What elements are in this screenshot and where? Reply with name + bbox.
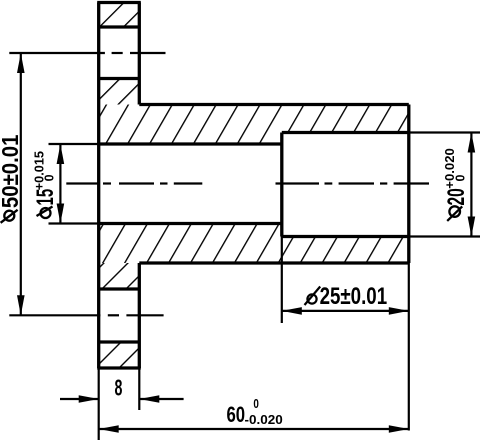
dim phi20 arrow down [468,217,476,237]
svg-text:8: 8 [115,375,123,401]
bolt hole bottom edge (upper hole) [99,77,140,80]
right end extension down for 60 dim [408,263,410,431]
dim phi25 text [305,283,388,310]
dim 60 line [99,428,409,430]
dim phi15 line [59,144,61,224]
dim phi25 arrow right [389,307,409,315]
dim phi25 arrow left [282,307,302,315]
upper bolt hole centerline [9,52,165,54]
dim 60 text [227,396,283,427]
dim phi50 text [0,134,23,222]
hatched flange strip lower [99,263,140,289]
dim phi25 line [282,310,409,312]
step face between bores [280,133,283,237]
sleeve bottom outer edge [139,261,409,264]
svg-text:15: 15 [32,189,59,206]
sleeve right end face [407,105,410,264]
step extension down for phi25 dim [281,237,283,324]
dim 60 arrow right [389,425,409,433]
bore phi15 bottom edge with extension [49,222,99,224]
svg-text:+0.020: +0.020 [443,148,457,189]
dim phi50 line [20,53,22,315]
svg-text:50±0.01: 50±0.01 [0,134,23,208]
bore phi15 top edge with extension [49,143,99,145]
hatched upper band (flange part + sleeve phi15 + sleeve phi20) [99,105,409,145]
hatched flange strip upper-mid [99,79,140,105]
dim phi15 text [32,151,59,218]
dim 8 line right (outside arrow) [139,398,183,400]
bolt hole top edge (upper hole) [99,25,140,28]
dim phi15 arrow up [57,144,65,164]
dim 60 arrow left [99,425,119,433]
dim phi50 arrow down [17,295,25,315]
svg-text:60: 60 [227,402,246,427]
main axis centerline [66,182,429,184]
bore phi20 bottom edge [282,235,409,238]
dim 8 arrow pointing right [79,395,99,403]
sleeve top outer edge [139,103,409,106]
svg-text:25±0.01: 25±0.01 [320,283,388,310]
dim phi20 text [443,148,470,221]
bore phi20 top edge [282,131,409,134]
flange left edge [97,3,100,369]
hatched flange strip bottom [99,342,140,368]
dim phi20 line [470,133,472,237]
dim 8 arrow pointing left [139,395,159,403]
flange top edge [97,1,141,4]
svg-text:0: 0 [253,396,259,411]
dim 8 line left (outside arrow) [60,398,99,400]
dim phi20 ext top [409,131,480,133]
svg-text:20: 20 [443,188,470,205]
flange right edge lower [138,263,141,368]
dim phi15 arrow down [57,204,65,224]
flange right edge upper [138,3,141,105]
svg-text:-0.020: -0.020 [245,412,283,427]
bolt hole top edge (lower hole) [99,287,140,290]
flange bottom edge [97,366,141,369]
dim phi20 arrow up [468,133,476,153]
flange right edge extension for 8 dim [138,368,140,410]
svg-text:+0.015: +0.015 [32,151,46,190]
lower bolt hole centerline [9,314,163,316]
dim phi20 ext bottom [409,235,480,237]
svg-text:0: 0 [454,175,468,182]
hatched lower band [99,224,409,264]
dim phi50 arrow up [17,53,25,73]
hatched flange strip top [99,3,140,28]
bolt hole bottom edge (lower hole) [99,340,140,343]
svg-text:0: 0 [42,174,56,181]
flange left edge extension down [98,368,100,440]
